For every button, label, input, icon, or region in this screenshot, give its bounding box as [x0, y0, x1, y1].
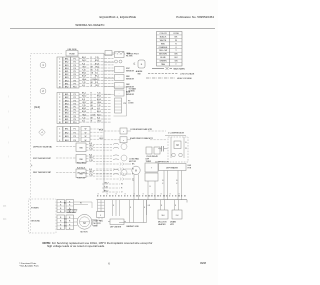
svg-text:R-3 BU-9: R-3 BU-9 [77, 167, 85, 169]
lower harness rows [77, 162, 135, 193]
wire color code table [157, 32, 183, 67]
svg-text:P1: P1 [74, 129, 76, 131]
svg-text:OR-7: OR-7 [89, 146, 94, 148]
svg-text:T: T [91, 76, 92, 78]
callout circle 1 [40, 62, 46, 68]
svg-text:P7: P7 [74, 77, 76, 79]
svg-text:5: 5 [59, 107, 60, 109]
svg-text:W: W [85, 132, 87, 134]
svg-text:R-3: R-3 [95, 82, 98, 84]
label power [31, 208, 39, 210]
svg-text:2: 2 [59, 132, 60, 134]
svg-text:Y-15: Y-15 [82, 70, 86, 72]
svg-text:W/R/842-SC-60AETC: W/R/842-SC-60AETC [75, 23, 105, 27]
svg-text:BR-2: BR-2 [104, 190, 108, 192]
svg-text:P10: P10 [73, 87, 76, 89]
svg-text:3: 3 [59, 136, 60, 138]
drain heater drop [170, 200, 182, 226]
svg-text:x: x [123, 131, 124, 133]
svg-text:P3: P3 [74, 136, 76, 138]
defrost timer boxes [145, 158, 158, 199]
svg-text:Y-15 T-11: Y-15 T-11 [77, 177, 85, 179]
callout 4b [31, 165, 33, 168]
svg-text:YELLOW: YELLOW [159, 50, 167, 52]
svg-text:V-6: V-6 [82, 121, 85, 123]
svg-text:OR-7: OR-7 [104, 182, 109, 184]
svg-text:BK2: BK2 [65, 97, 69, 99]
freezer thermostat [33, 154, 127, 163]
callout G4 [34, 105, 40, 109]
svg-text:DEF HEATER: DEF HEATER [166, 166, 178, 169]
svg-text:2: 2 [59, 62, 60, 64]
svg-text:FILTER: FILTER [126, 56, 133, 58]
svg-text:M: M [177, 144, 179, 147]
svg-text:4: 4 [59, 68, 60, 70]
svg-text:Y-15: Y-15 [89, 149, 93, 151]
svg-text:3: 3 [59, 100, 60, 102]
svg-text:M: M [135, 171, 137, 173]
vertical bracket right [114, 87, 127, 116]
svg-text:BK1: BK1 [65, 71, 69, 73]
compressor dashed enclosure [168, 137, 188, 162]
svg-text:5: 5 [59, 71, 60, 73]
left margin marks [3, 96, 9, 221]
svg-text:115V 60HZ: 115V 60HZ [67, 212, 77, 214]
svg-text:M: M [83, 221, 85, 225]
svg-text:oas: oas [3, 219, 6, 221]
svg-text:* Non-Available Parts: * Non-Available Parts [19, 265, 39, 268]
svg-text:BK4: BK4 [65, 116, 69, 118]
top fuse box [66, 51, 140, 57]
svg-text:ORANGE: ORANGE [159, 46, 168, 49]
header model numbers [99, 15, 136, 19]
svg-text:TAN: TAN [161, 63, 165, 66]
ground wires [74, 219, 78, 226]
svg-text:BR-2: BR-2 [82, 73, 86, 75]
svg-text:BR-2: BR-2 [82, 108, 86, 110]
svg-text:P8: P8 [74, 80, 76, 82]
svg-text:BK1: BK1 [65, 94, 69, 96]
svg-text:OR-2: OR-2 [99, 138, 103, 140]
ground strap vertical [147, 200, 151, 215]
svg-text:ASM: ASM [94, 225, 98, 228]
svg-text:FUSE: FUSE [69, 54, 75, 56]
evap fan motor drop [94, 200, 105, 228]
svg-text:P5: P5 [74, 107, 76, 109]
svg-text:W: W [175, 40, 177, 42]
svg-text:P4: P4 [74, 103, 76, 105]
vertical bus 1 [103, 53, 105, 192]
svg-text:MOTOR: MOTOR [129, 161, 137, 163]
svg-text:© Functional Parts: © Functional Parts [19, 262, 36, 265]
svg-text:W-12: W-12 [82, 96, 86, 98]
svg-text:W: W [85, 129, 87, 131]
connector J1 [57, 200, 65, 214]
svg-text:BK3: BK3 [65, 65, 69, 67]
wire group P2 harness [79, 93, 111, 123]
svg-text:BOARD: BOARD [129, 90, 136, 93]
svg-text:T: T [91, 111, 92, 113]
note line 2 [47, 244, 105, 248]
callout circle 2 [40, 88, 46, 94]
svg-text:BK2: BK2 [65, 87, 69, 89]
svg-text:GN-4: GN-4 [82, 79, 86, 81]
svg-text:W-12: W-12 [82, 60, 86, 62]
line cord wiring [67, 202, 92, 214]
svg-text:CONDENSER FAN MTR: CONDENSER FAN MTR [130, 128, 153, 131]
label ground [31, 221, 40, 223]
svg-text:P5: P5 [74, 71, 76, 73]
bottom-left dashed box [29, 199, 57, 233]
svg-text:8: 8 [59, 116, 60, 118]
header publication number [176, 15, 214, 19]
svg-text:P1: P1 [74, 59, 76, 61]
svg-text:BK-8: BK-8 [99, 129, 103, 131]
svg-text:9: 9 [59, 83, 60, 85]
svg-text:P4: P4 [74, 68, 76, 70]
svg-text:6: 6 [59, 110, 60, 112]
svg-text:BK-1: BK-1 [82, 93, 86, 95]
svg-text:10: 10 [59, 87, 61, 89]
svg-text:Y-15: Y-15 [104, 186, 108, 188]
svg-text:OR-7: OR-7 [95, 85, 99, 87]
svg-text:P4: P4 [74, 140, 76, 142]
lower bus junction [119, 200, 147, 228]
connector J4 [66, 215, 74, 230]
svg-text:BROWN: BROWN [159, 54, 167, 56]
defrost bimetal switch [33, 143, 127, 152]
note line 1 [43, 241, 153, 245]
svg-text:2: 2 [59, 97, 60, 99]
svg-text:BK2: BK2 [65, 62, 69, 64]
svg-text:BU-9: BU-9 [82, 76, 86, 78]
svg-text:CONN: CONN [128, 103, 134, 105]
svg-text:P2: P2 [74, 97, 76, 99]
svg-text:BR-2: BR-2 [97, 96, 101, 98]
svg-text:OR-7: OR-7 [82, 66, 86, 68]
svg-text:7: 7 [59, 113, 60, 115]
svg-text:x: x [123, 140, 124, 142]
svg-text:Y-15: Y-15 [97, 93, 101, 95]
svg-text:W-12: W-12 [95, 79, 99, 81]
svg-text:9: 9 [59, 119, 60, 121]
svg-text:09/08: 09/08 [200, 262, 207, 265]
header rule [10, 28, 215, 30]
svg-text:BU-9: BU-9 [95, 63, 99, 65]
svg-text:MAIN HARN: MAIN HARN [174, 68, 186, 71]
footer left [19, 262, 39, 268]
svg-text:R-3: R-3 [82, 63, 85, 65]
compressor bottom label [155, 162, 169, 164]
footer page number [108, 262, 110, 266]
condenser fan motor [129, 157, 140, 199]
svg-text:OR-7: OR-7 [82, 102, 86, 104]
svg-text:GN-4: GN-4 [97, 102, 101, 104]
svg-text:T-11: T-11 [82, 117, 85, 119]
connector ladder top [115, 88, 137, 114]
svg-text:1: 1 [59, 94, 60, 96]
top fuse label [67, 49, 77, 51]
svg-text:W-12: W-12 [97, 114, 101, 116]
refrigerator thermostat [33, 169, 127, 178]
svg-text:P10: P10 [73, 122, 76, 124]
svg-text:OR-7: OR-7 [89, 172, 94, 174]
svg-text:10: 10 [59, 122, 61, 124]
legend high voltage wire [146, 77, 192, 80]
svg-text:SENSOR: SENSOR [126, 94, 135, 96]
svg-text:P6: P6 [74, 74, 76, 76]
svg-text:BK1: BK1 [65, 119, 69, 121]
svg-text:P7: P7 [74, 113, 76, 115]
svg-text:GN-4: GN-4 [82, 114, 86, 116]
svg-text:R-3: R-3 [89, 169, 92, 171]
connector P3 [57, 127, 79, 142]
evaporator fan label [130, 137, 166, 140]
svg-text:7: 7 [59, 77, 60, 79]
svg-text:1: 1 [59, 59, 60, 61]
svg-text:P1: P1 [74, 94, 76, 96]
svg-text:V-6: V-6 [95, 73, 98, 75]
svg-text:P6: P6 [74, 110, 76, 112]
svg-text:R-3: R-3 [82, 99, 85, 101]
svg-text:P8: P8 [124, 103, 126, 105]
svg-text:R-3: R-3 [89, 143, 92, 145]
svg-text:8: 8 [59, 80, 60, 82]
svg-text:SW: SW [79, 147, 82, 149]
svg-text:TIMER: TIMER [146, 161, 152, 163]
overload protector [146, 147, 160, 158]
svg-text:POWER: POWER [31, 208, 39, 210]
svg-text:EVAPORATOR FAN MTR: EVAPORATOR FAN MTR [130, 137, 153, 140]
svg-text:HEATER: HEATER [158, 223, 166, 226]
svg-text:3: 3 [59, 65, 60, 67]
compressor motor circle [77, 214, 97, 233]
svg-text:Y-15: Y-15 [82, 105, 86, 107]
svg-text:P2: P2 [74, 132, 76, 134]
svg-text:MOTOR: MOTOR [80, 232, 88, 234]
svg-text:W: W [85, 140, 87, 142]
svg-text:BLUE: BLUE [160, 57, 166, 59]
svg-text:OR-7 GN-4: OR-7 GN-4 [77, 172, 87, 174]
svg-text:BK3: BK3 [65, 113, 69, 115]
connector P4 [81, 127, 90, 142]
svg-text:DEFROST BI-METAL: DEFROST BI-METAL [33, 146, 53, 149]
bus stubs [104, 55, 114, 95]
svg-text:BLACK: BLACK [160, 35, 167, 38]
wire group P1 harness [79, 57, 114, 87]
svg-text:BK-1: BK-1 [95, 76, 99, 78]
svg-text:BK3: BK3 [65, 77, 69, 79]
svg-text:W-12 BR-2: W-12 BR-2 [77, 162, 86, 164]
svg-text:V-6: V-6 [82, 85, 85, 87]
svg-text:4: 4 [59, 140, 60, 142]
svg-text:BK1: BK1 [65, 59, 69, 61]
svg-text:BK4: BK4 [65, 140, 69, 142]
svg-text:EQAH45GF-1, EQAH45GE: EQAH45GF-1, EQAH45GE [99, 15, 136, 19]
svg-text:BK2: BK2 [65, 110, 69, 112]
defrost limiter drop [108, 200, 126, 229]
svg-text:1: 1 [59, 129, 60, 131]
svg-text:RED: RED [161, 43, 166, 45]
svg-text:6: 6 [59, 74, 60, 76]
connector J2 [66, 200, 74, 214]
svg-text:BK4: BK4 [65, 103, 69, 105]
svg-text:W: W [85, 136, 87, 138]
defrost heater assembly [159, 164, 192, 200]
callout diamond [39, 129, 46, 136]
svg-text:BK2: BK2 [65, 74, 69, 76]
alarm buzzer [134, 60, 146, 75]
svg-text:SW: SW [137, 73, 140, 75]
svg-text:R-3: R-3 [89, 154, 92, 156]
svg-text:HTR: HTR [170, 224, 175, 226]
svg-text:BU-9: BU-9 [97, 99, 101, 101]
bottom neutral bus [97, 194, 188, 203]
condenser fan label [130, 128, 166, 131]
svg-text:COLOR: COLOR [159, 33, 167, 35]
legend connector symbol [152, 67, 185, 70]
svg-text:W: W [121, 184, 123, 186]
connector P2 [57, 93, 79, 125]
svg-text:CODE: CODE [173, 33, 179, 35]
svg-text:P2: P2 [74, 62, 76, 64]
svg-text:DEF LIMITER: DEF LIMITER [110, 227, 122, 229]
svg-text:P9: P9 [74, 83, 76, 85]
bottom-left wire labels [64, 202, 82, 227]
svg-text:R-3: R-3 [97, 117, 100, 119]
svg-text:CABINET GND: CABINET GND [126, 225, 140, 228]
svg-text:GREEN: GREEN [159, 61, 167, 63]
svg-text:LOW VOLTAGE: LOW VOLTAGE [180, 73, 195, 76]
svg-text:BK2: BK2 [65, 132, 69, 134]
svg-text:Y-15: Y-15 [89, 160, 93, 162]
svg-text:BK-1: BK-1 [82, 57, 86, 59]
footer date [200, 262, 207, 265]
svg-text:V-6: V-6 [97, 108, 100, 110]
svg-text:REF THERMOSTAT: REF THERMOSTAT [33, 171, 52, 174]
svg-text:BK4: BK4 [65, 68, 69, 70]
control board dashed enclosure top edge [31, 53, 63, 55]
svg-text:BK3: BK3 [65, 100, 69, 102]
svg-text:SENSOR: SENSOR [126, 79, 135, 81]
svg-text:BK1: BK1 [65, 129, 69, 131]
svg-text:HIGH VOLTAGE: HIGH VOLTAGE [177, 77, 192, 80]
compressor label [165, 133, 186, 136]
svg-text:Y-15: Y-15 [95, 57, 99, 59]
svg-text:Y-15: Y-15 [89, 175, 93, 177]
svg-text:P3: P3 [74, 65, 76, 67]
control board dashed enclosure left edge [30, 55, 32, 233]
svg-text:T-11: T-11 [95, 70, 98, 72]
svg-text:OR-7: OR-7 [97, 121, 101, 123]
legend low voltage wire [148, 73, 195, 76]
run capacitor [158, 146, 168, 152]
svg-text:BK4: BK4 [65, 80, 69, 82]
component column boxes [115, 52, 135, 97]
svg-text:BR-2: BR-2 [95, 60, 99, 62]
mullion heater drop [158, 200, 168, 226]
svg-text:OR-7: OR-7 [89, 157, 94, 159]
svg-text:CODE: CODE [91, 114, 97, 116]
svg-text:WHITE: WHITE [160, 40, 167, 42]
evap fan feed wires [90, 128, 131, 143]
svg-text:P9: P9 [74, 119, 76, 121]
svg-text:(G4): (G4) [34, 105, 40, 109]
svg-text:GN-4: GN-4 [95, 66, 99, 68]
svg-text:P3: P3 [74, 100, 76, 102]
svg-text:4: 4 [59, 103, 60, 105]
svg-text:SENSOR: SENSOR [126, 71, 135, 73]
connector J3 [57, 215, 65, 230]
svg-text:T-11: T-11 [97, 105, 100, 107]
svg-text:GROUND: GROUND [31, 221, 40, 223]
svg-text:Publication No. 5995526454: Publication No. 5995526454 [176, 15, 214, 19]
svg-text:BK3: BK3 [65, 136, 69, 138]
svg-text:SW: SW [79, 159, 82, 161]
svg-text:((: (( [134, 62, 136, 66]
svg-text:FRZ THERMOSTAT: FRZ THERMOSTAT [33, 157, 52, 160]
svg-text:high voltage leads or as noted: high voltage leads or as noted on specia… [47, 244, 105, 248]
svg-text:BK-1: BK-1 [97, 111, 101, 113]
svg-text:1 COMPRESSOR: 1 COMPRESSOR [168, 133, 185, 135]
svg-text:P8: P8 [74, 116, 76, 118]
svg-text:BK1: BK1 [65, 107, 69, 109]
connector P1 [57, 57, 79, 89]
svg-text:BK2: BK2 [65, 122, 69, 124]
svg-text:BK1: BK1 [65, 83, 69, 85]
svg-text:wm: wm [3, 206, 6, 208]
header diagram title [75, 23, 105, 27]
svg-text:T-11: T-11 [82, 82, 85, 84]
svg-text:BU-9: BU-9 [82, 111, 86, 113]
